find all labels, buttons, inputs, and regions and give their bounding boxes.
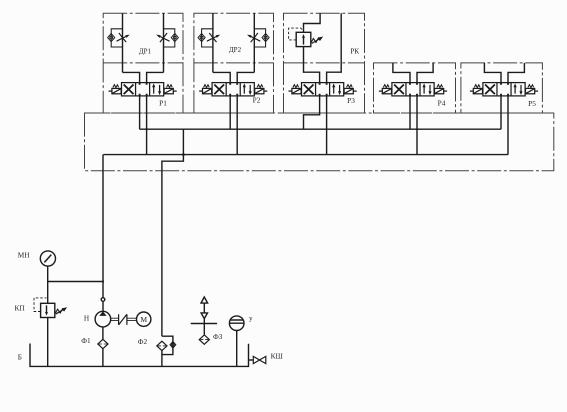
wire P4 ports down	[410, 96, 417, 155]
wire РК top exit	[304, 13, 321, 32]
breather lower triangle	[201, 313, 207, 319]
svg-text:РК: РК	[350, 47, 359, 56]
svg-text:Н: Н	[84, 313, 90, 322]
valve Р2	[199, 83, 267, 96]
node riser branch junction	[102, 280, 104, 282]
throttle-check ДР1 right	[156, 29, 178, 47]
КП internal arrow	[46, 305, 48, 313]
breather top triangle	[201, 297, 208, 303]
pump Н	[95, 311, 111, 327]
КП pilot dashed	[34, 298, 47, 312]
ball valve КШ	[253, 356, 265, 363]
enclosure box 2 (ДР2+Р2)	[194, 13, 274, 113]
wire pressure riser from pump	[102, 155, 104, 282]
svg-text:у: у	[249, 314, 253, 323]
svg-text:Р4: Р4	[438, 99, 446, 108]
Ф2 bypass loop	[162, 336, 173, 354]
wire P4 feed	[393, 63, 433, 83]
wire Ф2 to tank	[161, 351, 163, 367]
svg-text:МН: МН	[18, 250, 30, 259]
valve Р4	[379, 83, 447, 96]
throttle-check ДР1 left	[108, 29, 130, 47]
КП spring with arrow	[55, 309, 64, 314]
level gauge У	[229, 316, 244, 331]
filter Ф3	[199, 335, 209, 344]
svg-text:ДР1: ДР1	[139, 47, 152, 55]
wire P1 ports down	[140, 96, 147, 155]
valve Р5	[470, 83, 538, 96]
wire return drop from line A	[162, 129, 184, 336]
svg-text:Р2: Р2	[253, 95, 261, 104]
wire P5 ports down	[501, 96, 508, 155]
wire P2 ports down	[230, 96, 237, 155]
svg-text:Ф2: Ф2	[138, 337, 148, 346]
РК spring with arrow	[311, 38, 320, 43]
filter Ф2	[157, 341, 167, 350]
node P2-T crossing	[236, 128, 238, 130]
wire through РК down to P3	[304, 47, 320, 83]
node vent circle above pump	[101, 298, 105, 302]
svg-text:КП: КП	[15, 304, 26, 313]
wire P2 top connections	[213, 72, 254, 82]
svg-text:Б: Б	[18, 352, 22, 361]
wire to КШ	[249, 359, 254, 361]
svg-text:ДР2: ДР2	[229, 46, 242, 54]
tank Б	[30, 344, 249, 367]
wire ДР2 right riser	[253, 13, 255, 72]
svg-text:КШ: КШ	[271, 352, 284, 361]
manometer МН	[40, 251, 55, 266]
node P1-T crossing	[146, 128, 148, 130]
wire ДР2 left riser	[212, 13, 214, 72]
wire P1 top connections	[123, 72, 164, 82]
wire КП to tank	[47, 318, 49, 367]
РК internal arrow	[303, 37, 305, 45]
node return crossing line B	[182, 153, 185, 156]
check valve Ф2 bypass	[170, 342, 176, 349]
breather bar	[191, 323, 217, 325]
wire P5 feed	[484, 63, 524, 83]
enclosure box 1 (ДР1+Р1)	[103, 13, 183, 113]
motor М	[137, 312, 151, 326]
svg-text:Ф3: Ф3	[213, 332, 223, 341]
shaft coupling to motor	[127, 318, 137, 320]
manifold enclosure	[85, 113, 554, 171]
relief valve КП body	[41, 303, 55, 317]
wire branch to МН/КП	[48, 281, 103, 283]
pressure manifold line B	[103, 154, 508, 156]
breather stem	[203, 303, 205, 334]
wire ДР1 right riser	[163, 13, 165, 72]
svg-text:Р5: Р5	[528, 99, 536, 108]
wire P3 right top line	[327, 13, 342, 82]
svg-text:Ф1: Ф1	[81, 336, 91, 345]
node P4-T crossing	[416, 128, 418, 130]
svg-text:Р1: Р1	[159, 99, 167, 108]
filter Ф1	[98, 339, 108, 348]
svg-text:Р3: Р3	[347, 96, 355, 105]
enclosure box 4 (Р4)	[374, 63, 456, 113]
wire P3 ports down (P with jog)	[304, 96, 327, 155]
enclosure box 3 (РК+Р3)	[284, 13, 365, 113]
wire pressure riser lower / pump top	[102, 282, 104, 312]
valve Р3	[289, 83, 357, 96]
svg-text:М: М	[140, 315, 147, 324]
pressure valve РК body	[296, 32, 311, 46]
coupling	[119, 314, 127, 325]
wire ДР1 left riser	[122, 13, 124, 72]
wire У to tank	[236, 331, 238, 367]
valve Р1	[109, 83, 177, 96]
wire МН stem	[47, 266, 49, 303]
wire pump suction	[102, 327, 104, 367]
throttle-check ДР2 right	[247, 29, 269, 47]
tank manifold line A	[140, 128, 501, 130]
enclosure box 5 (Р5)	[461, 63, 543, 113]
РК pilot dashed line	[289, 28, 304, 40]
shaft pump to coupling	[111, 318, 119, 320]
throttle-check ДР2 left	[198, 29, 220, 47]
